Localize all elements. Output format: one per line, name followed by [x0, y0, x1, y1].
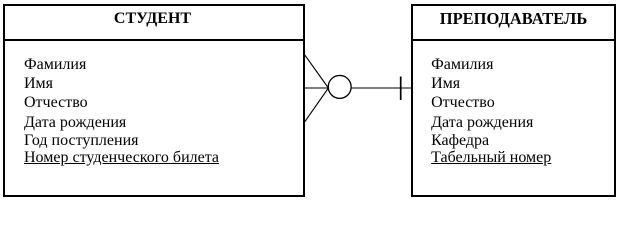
crow's foot bottom line [304, 88, 329, 124]
attribute Дата рождения [431, 115, 533, 131]
wire circle to right entity [351, 87, 412, 89]
key attribute Табельный номер [431, 150, 551, 166]
attribute Имя [431, 76, 460, 92]
crow's foot top line [304, 53, 329, 88]
crow's foot middle line [304, 87, 329, 89]
attribute Фамилия [24, 57, 86, 73]
attribute Отчество [431, 95, 495, 111]
attribute Фамилия [431, 57, 493, 73]
entity СТУДЕНТ [3, 4, 305, 197]
cardinality tick [400, 77, 402, 101]
attribute Дата рождения [24, 115, 126, 131]
attribute Имя [24, 76, 53, 92]
relationship circle [328, 75, 351, 98]
entity ПРЕПОДАВАТЕЛЬ [411, 4, 616, 197]
attribute Отчество [24, 95, 88, 111]
attribute Год поступления [24, 133, 139, 149]
key attribute Номер студенческого билета [24, 150, 219, 166]
attribute Кафедра [431, 133, 489, 149]
